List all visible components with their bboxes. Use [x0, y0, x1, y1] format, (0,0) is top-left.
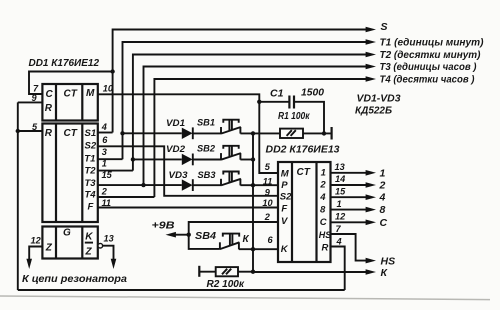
output arrow T2 [366, 52, 376, 58]
svg-text:1: 1 [321, 168, 326, 179]
diode VD3 [169, 170, 193, 191]
svg-text:4: 4 [336, 236, 342, 246]
node junction SB1-bus [251, 131, 255, 135]
node junction T1-VD1 [120, 131, 124, 135]
svg-text:6: 6 [102, 135, 108, 145]
svg-text:4: 4 [379, 192, 386, 204]
wire bottom reset bus [18, 289, 345, 291]
pin 11 wire F to DD2 [98, 198, 278, 208]
svg-text:C: C [380, 217, 388, 229]
pin 15 wire T3 to VD3 [98, 170, 182, 185]
switch SB4 [195, 231, 250, 249]
svg-text:C: C [320, 217, 327, 228]
wire S net vertical and top line [113, 30, 367, 133]
wire VD2 row from T2 net [133, 158, 182, 160]
svg-text:КД522Б: КД522Б [355, 106, 392, 117]
pin 1 wire T2 [98, 159, 133, 171]
svg-text:K: K [85, 232, 93, 243]
resistor R2 [199, 266, 253, 290]
pin 6 wire S2 to DD2 [98, 135, 278, 196]
svg-text:HS: HS [381, 255, 396, 267]
wire SB2 to bus [240, 159, 253, 161]
wire reset rail left vertical [17, 102, 19, 290]
svg-text:S1: S1 [85, 128, 97, 139]
pin 14 output 2 [331, 174, 386, 191]
pin 3 wire T1 [98, 147, 123, 159]
wire SB3 to DD2 P input [240, 184, 278, 186]
wire VD2 to SB2 [193, 159, 221, 161]
svg-text:4: 4 [319, 192, 326, 203]
pin 1 output 8 [331, 199, 386, 216]
wire T2 net vertical and top line [133, 55, 367, 171]
wire K output line [253, 271, 367, 273]
svg-text:CT: CT [64, 128, 78, 139]
svg-text:T3: T3 [85, 178, 97, 189]
pin 7 output HS [331, 224, 396, 267]
svg-text:SB4: SB4 [195, 231, 216, 242]
wire VD1 to SB1 [193, 132, 221, 134]
svg-text:CT: CT [64, 89, 78, 100]
node junction T3-pin15 [141, 183, 145, 187]
svg-text:8: 8 [320, 204, 326, 215]
svg-text:13: 13 [104, 233, 114, 243]
svg-text:HS: HS [319, 230, 332, 240]
pin 12 wire Z with down arrow [26, 236, 42, 269]
output arrow S [366, 27, 376, 33]
svg-text:13: 13 [335, 162, 345, 172]
pin 4 wire S1 [98, 122, 113, 132]
svg-text:T2: T2 [85, 165, 97, 176]
svg-text:1: 1 [337, 199, 342, 209]
svg-text:T3 (единицы часов ): T3 (единицы часов ) [380, 61, 477, 73]
svg-text:F: F [88, 201, 94, 212]
output arrow T4 [366, 76, 376, 82]
svg-text:15: 15 [335, 186, 346, 196]
wire button common bus [252, 133, 254, 271]
svg-text:M: M [86, 88, 95, 99]
svg-text:1: 1 [380, 167, 386, 179]
pin 12 output C [331, 212, 388, 229]
switch SB1 [197, 118, 241, 134]
svg-text:+9В: +9В [152, 220, 175, 232]
wire SB1 to R1 [240, 132, 280, 134]
supply +9V arrow [152, 220, 189, 238]
scan artifact line [0, 296, 490, 300]
wire T4 net vertical and top line [154, 79, 366, 197]
svg-text:11: 11 [263, 176, 273, 186]
svg-text:C: C [46, 89, 54, 100]
svg-text:15: 15 [102, 170, 113, 180]
svg-text:CT: CT [297, 167, 311, 178]
svg-text:F: F [281, 203, 287, 214]
svg-text:C1: C1 [270, 88, 284, 100]
pin 9 wire to reset rail [18, 93, 43, 103]
svg-text:VD1-VD3: VD1-VD3 [357, 94, 401, 105]
svg-text:VD2: VD2 [166, 144, 186, 155]
svg-text:6: 6 [268, 235, 274, 245]
pin 13 inverted output circle and down arrow [98, 233, 116, 269]
node junction SB2-bus [251, 157, 255, 161]
svg-text:1: 1 [102, 159, 107, 169]
svg-text:S2: S2 [280, 191, 292, 202]
output arrow T3 [366, 64, 376, 70]
svg-text:5: 5 [265, 162, 271, 172]
svg-text:R: R [45, 128, 53, 139]
pin 2 wire T4 [98, 187, 155, 197]
diode VD1 [166, 118, 193, 139]
node junction K-bus [251, 247, 255, 251]
svg-text:T1: T1 [84, 153, 95, 164]
node junction +9V branch [187, 233, 191, 237]
svg-text:Z: Z [45, 243, 53, 254]
wire VD3 to SB3 [193, 184, 221, 186]
node junction pin5-reset rail [16, 129, 20, 133]
svg-text:3: 3 [102, 147, 107, 157]
svg-text:12: 12 [335, 212, 346, 222]
IC DD1 generator section box [42, 227, 97, 259]
pin 4 R input wire to reset bus [331, 236, 345, 290]
svg-text:Z: Z [85, 247, 93, 258]
pin 10 M output wire [98, 84, 278, 173]
svg-text:12: 12 [31, 236, 42, 246]
wire VD1 row from T1 net [123, 132, 182, 134]
op IC DD1 upper section box [42, 84, 97, 121]
svg-text:T4: T4 [85, 189, 97, 200]
svg-text:10: 10 [262, 198, 273, 208]
svg-text:7: 7 [336, 224, 342, 234]
switch SB3 [198, 170, 241, 185]
node junction SB3-bus [251, 183, 255, 187]
svg-text:7: 7 [33, 83, 39, 93]
svg-text:S2: S2 [85, 141, 97, 152]
svg-text:VD1: VD1 [166, 118, 185, 129]
wire T3 net vertical and top line [144, 67, 367, 186]
svg-text:R: R [45, 103, 53, 114]
svg-text:DD1 К176ИЕ12: DD1 К176ИЕ12 [29, 57, 100, 69]
pin 15 output 4 [331, 186, 386, 203]
svg-text:DD2 К176ИЕ13: DD2 К176ИЕ13 [266, 144, 340, 156]
svg-text:9: 9 [265, 187, 271, 197]
svg-text:V: V [281, 216, 288, 227]
IC DD2 box [278, 162, 331, 262]
svg-text:2: 2 [101, 187, 108, 197]
node junction C1 tap [257, 100, 261, 104]
IC DD1 middle section box [42, 124, 97, 223]
pin 7 wire and bracket to S net [29, 72, 113, 95]
svg-text:2: 2 [379, 180, 386, 192]
svg-text:T2 (десятки минут): T2 (десятки минут) [380, 49, 481, 61]
svg-text:K: K [281, 244, 289, 255]
svg-text:R2 100к: R2 100к [207, 278, 245, 290]
svg-text:SB2: SB2 [197, 144, 216, 155]
wire T1 net vertical and top line [123, 42, 367, 159]
svg-text:11: 11 [102, 198, 112, 208]
svg-text:S: S [381, 21, 388, 33]
node junction pin7-S [110, 69, 114, 73]
svg-text:SB1: SB1 [197, 118, 215, 129]
svg-text:2: 2 [264, 212, 271, 222]
capacitor C1 [259, 87, 324, 134]
svg-text:M: M [281, 168, 290, 179]
resistor R1 [278, 110, 332, 140]
output arrow T1 [366, 39, 376, 45]
pin 13 output 1 [331, 162, 386, 179]
svg-text:R: R [322, 243, 329, 254]
svg-text:T1 (единицы минут): T1 (единицы минут) [380, 37, 484, 49]
svg-text:R1 100к: R1 100к [278, 110, 310, 122]
wire SB4 to DD2 K input [239, 248, 278, 250]
svg-text:4: 4 [101, 122, 107, 132]
pin 5 wire [18, 122, 43, 132]
node junction C1-R1 [322, 131, 326, 135]
svg-text:8: 8 [380, 204, 386, 216]
wire V input loop from +9V [189, 222, 278, 249]
svg-text:G: G [63, 228, 71, 239]
output arrow K [366, 269, 376, 275]
svg-text:К: К [243, 234, 250, 245]
diode VD2 [166, 144, 193, 165]
node junction R2-bus [251, 270, 255, 274]
switch SB2 [197, 144, 241, 160]
node junction T2-VD2 [131, 157, 135, 161]
svg-text:14: 14 [335, 174, 345, 184]
svg-text:SB3: SB3 [198, 170, 217, 181]
svg-text:1500: 1500 [301, 87, 324, 99]
svg-text:T4 (десятки часов ): T4 (десятки часов ) [380, 74, 475, 86]
svg-text:VD3: VD3 [169, 170, 189, 181]
svg-text:P: P [281, 180, 288, 191]
svg-text:К цепи резонатора: К цепи резонатора [22, 273, 127, 285]
svg-text:2: 2 [319, 180, 326, 191]
